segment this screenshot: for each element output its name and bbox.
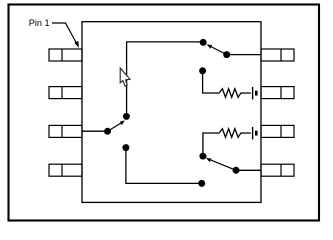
- pin 7 (right): [261, 87, 294, 99]
- pin 8 (right top): [261, 49, 294, 61]
- pin 6 (right): [261, 125, 294, 137]
- node SW3 lower contact: [198, 180, 205, 187]
- wire pin3-left to switch SW1 pivot: [82, 130, 108, 132]
- node SW2 lower contact: [199, 67, 206, 74]
- wire SW3 pivot to pin 5: [236, 169, 261, 171]
- IC U1 package body: [82, 22, 261, 203]
- leader arrow to pin 1: [52, 23, 79, 48]
- node SW3 top contact: [199, 153, 206, 160]
- switch SW2 blade (pivot to top contact, arrow): [207, 44, 227, 54]
- node SW1 pivot: [104, 128, 111, 135]
- mouse cursor: [120, 68, 130, 86]
- resistor R1: [219, 89, 251, 98]
- node SW2 top contact: [200, 39, 207, 46]
- node SW2 pivot: [223, 51, 230, 58]
- pin 2 (left): [49, 87, 82, 99]
- wire SW2 pivot to pin 8: [227, 54, 261, 56]
- wire SW3 top contact up to R2: [203, 133, 219, 156]
- wire SW2 lower contact down to R1: [203, 71, 220, 93]
- pin 5 (right bottom): [261, 164, 294, 176]
- resistor R2: [219, 129, 251, 138]
- node SW1 lower throw: [122, 144, 129, 151]
- node SW3 pivot: [233, 167, 240, 174]
- terminal plate symbol at pin 6: [253, 127, 258, 140]
- node SW1 upper throw: [123, 113, 130, 120]
- label Pin 1: [29, 18, 50, 28]
- terminal plate symbol at pin 7: [253, 87, 258, 100]
- pin 3 (left): [49, 125, 82, 137]
- switch SW1 blade (pivot to upper throw, arrow): [108, 120, 125, 131]
- wire SW1 upper throw up and across to SW2: [127, 42, 203, 116]
- pin 1 (left top): [49, 49, 82, 61]
- pin 4 (left bottom): [49, 164, 82, 176]
- wire SW3 lower contact to SW1 lower throw: [126, 148, 202, 184]
- svg-text:Pin 1: Pin 1: [29, 18, 50, 28]
- switch SW3 blade (pivot to top contact, arrow): [206, 158, 236, 171]
